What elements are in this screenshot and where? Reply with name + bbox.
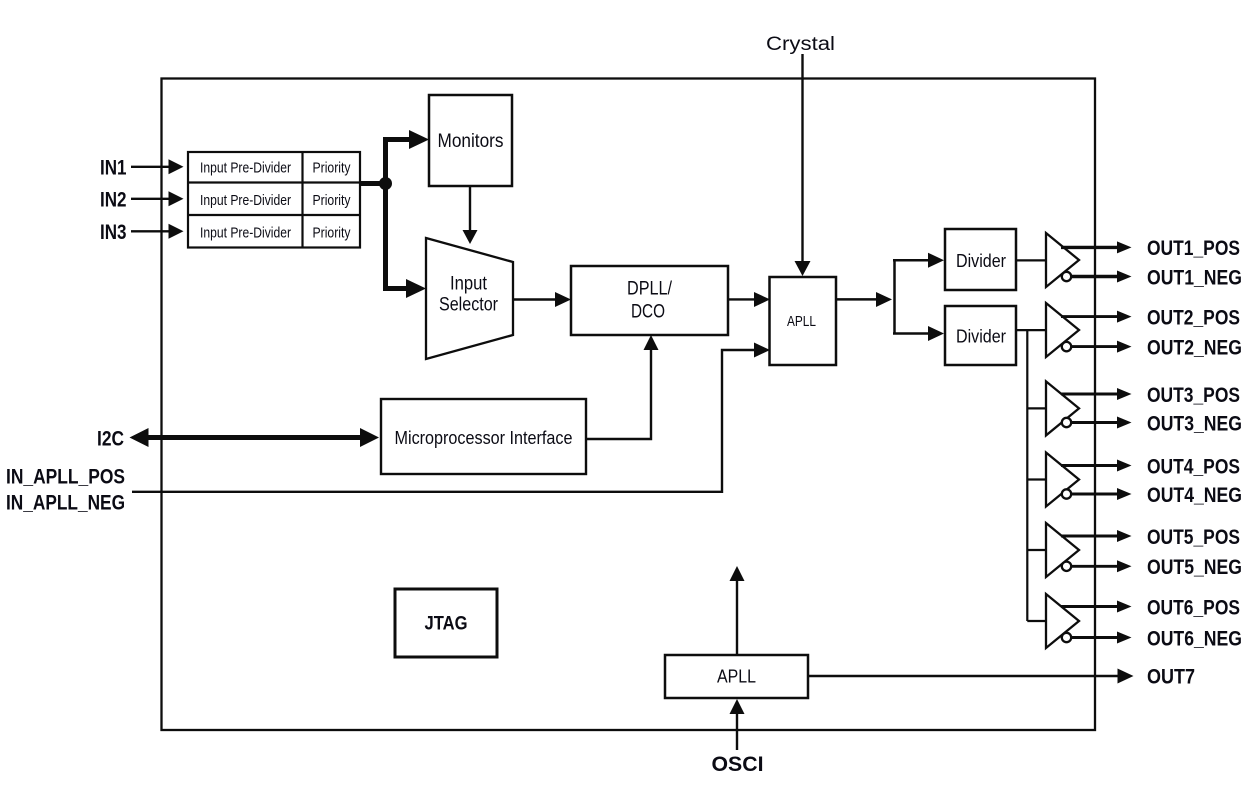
wire OUT2_NEG — [1072, 345, 1119, 348]
wire OUT1_POS — [1061, 246, 1118, 249]
wire distribution line — [1027, 330, 1046, 621]
svg-text:APLL: APLL — [787, 313, 816, 330]
wire OUT2_POS — [1061, 315, 1118, 318]
svg-text:IN2: IN2 — [100, 188, 127, 212]
node junction dot — [379, 177, 392, 190]
wire OUT3_POS — [1061, 393, 1118, 396]
block APLL bottom — [665, 655, 808, 698]
svg-text:OSCI: OSCI — [712, 752, 764, 776]
svg-text:OUT3_NEG: OUT3_NEG — [1147, 411, 1242, 435]
wire up arrow from APLL bottom — [736, 579, 738, 655]
svg-text:Input: Input — [450, 274, 488, 295]
wire Divider2 to buffer2 and distribution — [1016, 329, 1046, 331]
wire APLL to divider branch — [836, 298, 878, 301]
wire OUT5_NEG — [1072, 565, 1119, 568]
svg-text:OUT4_POS: OUT4_POS — [1147, 454, 1240, 478]
wire bus arrow to Input Selector — [383, 286, 408, 291]
svg-text:OUT3_POS: OUT3_POS — [1147, 383, 1240, 407]
svg-text:Priority: Priority — [313, 226, 352, 242]
block Divider 1 — [945, 229, 1016, 290]
buffer U5 triangle — [1046, 523, 1079, 577]
wire Input Selector to DPLL — [513, 298, 557, 301]
svg-text:APLL: APLL — [717, 667, 756, 687]
chip boundary — [162, 79, 1096, 731]
svg-text:I2C: I2C — [97, 427, 124, 451]
inversion bubble U1 — [1062, 272, 1071, 281]
wire bus arrow to Monitors — [383, 137, 411, 142]
wire DPLL to APLL — [728, 298, 756, 300]
inversion bubble U3 — [1062, 418, 1071, 427]
svg-text:Divider: Divider — [956, 327, 1006, 347]
inversion bubble U6 — [1062, 633, 1071, 642]
svg-text:DPLL/: DPLL/ — [627, 279, 673, 300]
svg-text:IN_APLL_POS: IN_APLL_POS — [6, 465, 125, 489]
wire OUT5_POS — [1061, 535, 1118, 538]
wire Crystal to APLL — [801, 54, 803, 263]
svg-text:OUT4_NEG: OUT4_NEG — [1147, 483, 1242, 507]
svg-text:OUT6_POS: OUT6_POS — [1147, 595, 1240, 619]
svg-text:OUT2_POS: OUT2_POS — [1147, 305, 1240, 329]
svg-text:OUT7: OUT7 — [1147, 665, 1195, 689]
block Divider 2 — [945, 306, 1016, 365]
wire OSCI into APLL bottom — [736, 711, 738, 750]
wire thick bus from table to junction — [360, 137, 386, 291]
svg-text:Crystal: Crystal — [766, 34, 835, 55]
inversion bubble U2 — [1062, 342, 1071, 351]
svg-text:IN1: IN1 — [100, 156, 127, 180]
wire OUT3_NEG — [1072, 421, 1119, 424]
wire Divider1 to buffer1 — [1016, 259, 1046, 261]
svg-text:OUT2_NEG: OUT2_NEG — [1147, 335, 1242, 359]
wire OUT6_NEG — [1072, 636, 1119, 639]
wire OUT4_NEG — [1072, 493, 1119, 496]
inversion bubble U4 — [1062, 489, 1071, 498]
block DPLL/DCO — [571, 266, 728, 335]
svg-text:Selector: Selector — [439, 295, 499, 316]
wire Monitors to Input Selector — [469, 186, 471, 232]
svg-text:Microprocessor Interface: Microprocessor Interface — [395, 427, 573, 448]
svg-text:OUT5_NEG: OUT5_NEG — [1147, 555, 1242, 579]
svg-text:Input Pre-Divider: Input Pre-Divider — [200, 193, 291, 209]
buffer U2 triangle — [1046, 303, 1079, 357]
wire OUT6_POS — [1061, 605, 1118, 608]
svg-text:OUT5_POS: OUT5_POS — [1147, 525, 1240, 549]
svg-text:OUT1_POS: OUT1_POS — [1147, 236, 1240, 260]
block Input Pre-Divider / Priority table — [188, 152, 360, 248]
wire feedback into APLL from IN_APLL — [132, 350, 756, 492]
svg-text:IN_APLL_NEG: IN_APLL_NEG — [6, 491, 125, 515]
svg-text:Priority: Priority — [313, 161, 352, 177]
wire I2C double arrow — [146, 435, 362, 440]
svg-text:JTAG: JTAG — [425, 614, 468, 635]
buffer U4 triangle — [1046, 453, 1079, 507]
svg-text:OUT6_NEG: OUT6_NEG — [1147, 626, 1242, 650]
block JTAG — [395, 589, 497, 657]
svg-text:Input Pre-Divider: Input Pre-Divider — [200, 161, 291, 177]
svg-text:IN3: IN3 — [100, 220, 127, 244]
block Microprocessor Interface — [381, 399, 586, 474]
inversion bubble U5 — [1062, 562, 1071, 571]
svg-text:Monitors: Monitors — [438, 131, 504, 152]
wire OUT1_NEG — [1072, 275, 1119, 278]
svg-text:OUT1_NEG: OUT1_NEG — [1147, 265, 1242, 289]
wire IN3 arrow — [131, 230, 170, 232]
svg-text:Priority: Priority — [313, 193, 352, 209]
svg-text:Input Pre-Divider: Input Pre-Divider — [200, 226, 291, 242]
svg-text:Divider: Divider — [956, 251, 1006, 271]
wire IN2 arrow — [131, 198, 170, 200]
wire IN1 arrow — [131, 166, 170, 168]
buffer U6 triangle — [1046, 594, 1079, 648]
arrowhead Crystal into APLL — [795, 261, 811, 276]
svg-text:DCO: DCO — [631, 302, 665, 323]
block Monitors — [429, 95, 512, 186]
buffer U3 triangle — [1046, 381, 1079, 435]
wire OUT4_POS — [1061, 464, 1118, 467]
wire MI to DPLL — [586, 348, 651, 439]
block Input Selector trapezoid — [426, 238, 513, 359]
buffer U1 triangle — [1046, 233, 1079, 287]
wire APLL bottom to OUT7 — [808, 675, 1120, 677]
block APLL — [770, 277, 837, 365]
